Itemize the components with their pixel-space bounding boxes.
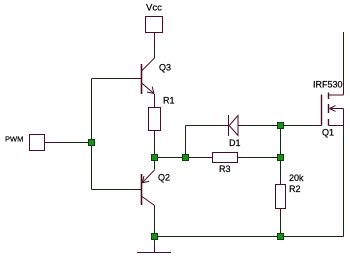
svg-text:Q1: Q1: [322, 128, 334, 138]
svg-text:R3: R3: [219, 164, 231, 174]
svg-text:20k: 20k: [289, 173, 304, 183]
svg-text:D1: D1: [229, 138, 241, 148]
svg-text:Vcc: Vcc: [146, 3, 162, 14]
svg-text:R1: R1: [163, 96, 175, 106]
svg-text:Q3: Q3: [159, 63, 171, 73]
svg-text:Q2: Q2: [158, 173, 170, 183]
svg-text:IRF530: IRF530: [313, 80, 343, 90]
svg-text:R2: R2: [289, 184, 301, 194]
svg-text:PWM: PWM: [5, 135, 23, 144]
